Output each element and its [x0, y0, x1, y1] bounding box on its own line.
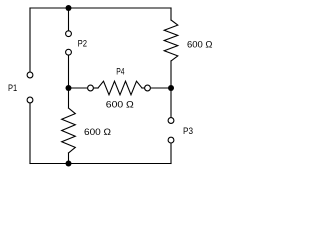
wire P4 left terminal to resistor R2 — [94, 87, 99, 89]
wire P2 lower terminal to node A — [68, 55, 70, 88]
wire top dot to P2 upper terminal — [68, 8, 70, 31]
wire left rail upper — [29, 8, 31, 72]
svg-text:600 Ω: 600 Ω — [187, 40, 213, 51]
svg-text:P4: P4 — [116, 67, 124, 78]
wire resistor R2 to P4 right terminal — [142, 87, 144, 89]
wire P3 lower terminal to bottom rail — [170, 143, 172, 163]
port P3 lower terminal — [168, 137, 174, 143]
port P2 lower terminal — [66, 49, 72, 55]
port P4 right terminal — [145, 85, 151, 91]
wire node B to P3 upper terminal — [170, 88, 172, 118]
wire bottom rail — [30, 163, 171, 165]
wire node A to resistor R1 — [68, 88, 70, 108]
port P1 upper terminal — [27, 72, 33, 78]
resistor R2 (P4 branch) 600 ohm horizontal zigzag — [98, 81, 142, 95]
wire node A to P4 left terminal — [69, 87, 88, 89]
node A junction — [66, 85, 72, 91]
wire top rail — [30, 7, 171, 9]
node junction top — [66, 5, 72, 11]
port P4 left terminal — [88, 85, 94, 91]
svg-text:P2: P2 — [78, 38, 87, 49]
svg-text:600 Ω: 600 Ω — [106, 100, 134, 111]
resistor R3 600 ohm vertical zigzag right — [164, 20, 178, 61]
port P1 lower terminal — [27, 97, 33, 103]
wire resistor R1 to bottom node — [68, 153, 70, 164]
svg-text:P1: P1 — [8, 83, 17, 94]
wire top rail corner down to resistor R3 — [170, 8, 172, 20]
node junction bottom — [66, 161, 72, 167]
wire left rail lower — [29, 103, 31, 164]
port P3 upper terminal — [168, 118, 174, 124]
svg-text:600 Ω: 600 Ω — [84, 127, 111, 138]
port P2 upper terminal — [66, 31, 72, 37]
wire P4 right terminal to node B — [151, 87, 171, 89]
svg-text:P3: P3 — [183, 126, 193, 137]
resistor R1 600 ohm vertical zigzag left — [62, 108, 76, 153]
wire resistor R3 to node B — [170, 61, 172, 88]
node B junction — [168, 85, 174, 91]
